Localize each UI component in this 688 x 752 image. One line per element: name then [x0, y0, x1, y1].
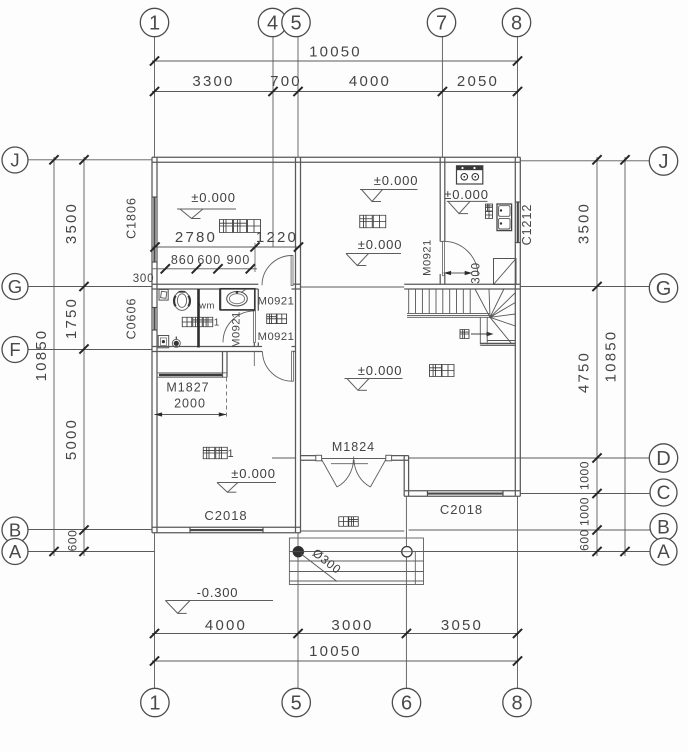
- row C line (right): [520, 493, 650, 495]
- row A line (right): [415, 551, 650, 553]
- svg-text:2780: 2780: [175, 229, 217, 246]
- row D sill extension into bedroom: [272, 457, 296, 459]
- svg-text:10850: 10850: [33, 329, 50, 382]
- porch column grid5 (filled): [291, 547, 306, 557]
- dim line 2000 with arrowheads: [155, 412, 227, 416]
- grid line 4 (top extension): [272, 36, 274, 247]
- svg-text:J: J: [10, 150, 19, 171]
- svg-text:900: 900: [226, 253, 250, 267]
- svg-text:4750: 4750: [576, 351, 593, 393]
- porch column grid6 (open): [400, 547, 415, 557]
- door M0921 kitchen (leaf+swing): [443, 241, 478, 275]
- svg-text:B: B: [9, 520, 21, 541]
- grid bubble F left: [2, 337, 28, 363]
- svg-text:C0606: C0606: [125, 298, 139, 340]
- porch north wall row D west segment: [301, 456, 322, 461]
- svg-text:4: 4: [267, 13, 278, 35]
- room label kitchen 厨房 (stacked): [486, 204, 493, 211]
- ticks top dimension rows: [150, 56, 522, 96]
- grid line 8 (top extension): [517, 36, 519, 158]
- room label living 客厅: [430, 365, 442, 377]
- dim line 2780/1220: [152, 246, 301, 248]
- svg-text:M0921: M0921: [422, 239, 434, 276]
- svg-text:M1827: M1827: [166, 381, 209, 395]
- kitchen sink double basin: [497, 204, 512, 231]
- svg-text:±0.000: ±0.000: [231, 466, 275, 481]
- level mark +0.000 kitchen: [444, 187, 488, 214]
- svg-text:6: 6: [401, 693, 412, 715]
- ticks bottom dimension rows: [150, 629, 522, 666]
- porch north wall row D east segment: [386, 456, 409, 461]
- grid bubble 6 bottom: [392, 688, 420, 716]
- grid line 5 (bottom extension): [297, 533, 299, 690]
- level mark +0.000 dining lower: [346, 237, 402, 266]
- double door M1824 porch entrance: [316, 455, 392, 487]
- interior wall row G (stair north / kitchen south): [404, 284, 520, 289]
- svg-text:10050: 10050: [309, 44, 362, 61]
- toilet: [174, 291, 190, 310]
- room label dining 餐厅: [360, 215, 373, 228]
- right dimension line overall 10850: [624, 157, 626, 556]
- level mark +0.000 living: [345, 363, 403, 390]
- top dimension line segments 3300/700/4000/2050: [152, 91, 519, 93]
- svg-text:M0921: M0921: [231, 311, 243, 348]
- bathroom partition wall (dark) wm/counter: [219, 289, 222, 310]
- corridor label: [267, 314, 277, 324]
- right dimension line segments: [596, 157, 598, 556]
- grid bubble B left: [2, 517, 28, 543]
- svg-text:7: 7: [436, 13, 447, 35]
- svg-text:2050: 2050: [457, 73, 499, 90]
- column diameter leader Ø300: [301, 546, 345, 582]
- ticks chain 860/600/900: [161, 264, 255, 273]
- svg-text:5: 5: [291, 693, 302, 715]
- svg-text:3500: 3500: [63, 202, 80, 244]
- dim chain line 860/600/900: [152, 268, 257, 270]
- stair up arrow with 上: [460, 330, 494, 339]
- corridor west wall lower segment: [254, 342, 258, 346]
- window C1212 on east wall (kitchen): [515, 202, 520, 243]
- wall stub below row F at corridor: [253, 352, 255, 367]
- svg-text:F: F: [9, 339, 20, 360]
- grid bubble 8 top: [502, 8, 530, 36]
- grid bubble A right: [650, 538, 677, 565]
- interior wall row G jamb east of storage door: [292, 284, 301, 289]
- grid bubble J left: [2, 147, 28, 173]
- row D line (right): [409, 457, 651, 459]
- svg-text:3500: 3500: [576, 202, 593, 244]
- row J line (right): [520, 160, 650, 162]
- svg-text:3050: 3050: [441, 617, 483, 634]
- svg-text:C2018: C2018: [440, 502, 483, 517]
- level mark +0.000 bedroom: [217, 466, 276, 492]
- staircase winder fan: [475, 289, 515, 344]
- grid line 7 (top extension): [441, 36, 443, 158]
- room label porch 门廊: [339, 517, 349, 527]
- svg-text:300: 300: [133, 273, 155, 285]
- row B line (right): [409, 529, 651, 531]
- svg-text:5: 5: [290, 13, 301, 35]
- bottom dimension line segments 4000/3000/3050: [152, 633, 519, 635]
- grid line 8 (bottom extension): [517, 496, 519, 689]
- dim line 300 kitchen door: [444, 271, 473, 275]
- exterior wall row C (living south): [404, 491, 520, 497]
- svg-text:C1806: C1806: [125, 197, 139, 239]
- window C0606 on west wall (bathroom): [152, 308, 157, 331]
- staircase upper flight treads: [409, 289, 471, 313]
- row J line (left): [28, 159, 152, 161]
- grid line 1 (top extension): [154, 36, 156, 158]
- window C2018 on bedroom south wall: [190, 527, 263, 533]
- svg-text:A: A: [9, 541, 22, 562]
- svg-text:G: G: [656, 278, 672, 300]
- svg-text:1750: 1750: [63, 297, 80, 339]
- svg-text:8: 8: [511, 693, 522, 715]
- svg-text:600: 600: [197, 253, 221, 267]
- left dimension line segments: [83, 157, 85, 556]
- svg-text:1: 1: [227, 448, 233, 460]
- cooktop stove: [457, 166, 483, 184]
- grid bubble 1 top: [140, 8, 168, 36]
- interior wall grid 7 (kitchen west): [440, 157, 445, 241]
- grid bubble 8 bottom: [503, 688, 531, 716]
- svg-text:2000: 2000: [174, 397, 206, 411]
- window C1806 on west wall (storage): [152, 197, 157, 262]
- interior wall row G (bathroom north): [152, 284, 258, 289]
- ticks left dimension lines: [49, 155, 88, 556]
- grid bubble B right: [650, 514, 677, 541]
- grid bubble 5 top: [282, 8, 310, 36]
- porch south edge line: [301, 530, 405, 532]
- level mark -0.300 outdoor: [165, 585, 273, 613]
- grid line 6 (bottom extension): [405, 496, 407, 689]
- bathroom partition wall (dark) toilet/wm: [197, 289, 200, 348]
- row F line (left): [28, 349, 152, 351]
- room label bathroom 卫生间1: [182, 317, 192, 327]
- riser at 2780/1220 boundary: [254, 243, 256, 272]
- shower drain circle: [172, 337, 180, 348]
- svg-text:wm: wm: [198, 301, 215, 312]
- ticks right dimension lines: [592, 155, 629, 556]
- svg-text:4000: 4000: [205, 617, 247, 634]
- svg-text:3300: 3300: [192, 73, 234, 90]
- corridor west wall upper segment: [254, 289, 258, 311]
- svg-text:600: 600: [66, 530, 80, 552]
- flue duct with diagonal: [494, 259, 517, 285]
- svg-text:±0.000: ±0.000: [191, 190, 235, 205]
- grid bubble 4 top: [258, 8, 286, 36]
- svg-text:M0921: M0921: [258, 331, 295, 343]
- svg-text:C2018: C2018: [204, 508, 247, 523]
- grid line 1 (bottom extension): [154, 533, 156, 690]
- bottom dimension line overall 10050: [152, 660, 519, 662]
- svg-text:1000: 1000: [578, 497, 592, 526]
- svg-text:1: 1: [214, 318, 220, 329]
- interior wall grid 5 (storage/dining, corridor/living, bedroom/porch): [296, 157, 301, 533]
- grid bubble D right: [649, 444, 677, 472]
- row B line (left): [28, 529, 152, 531]
- room label storage 储藏室: [220, 220, 233, 233]
- left dimension line overall 10850: [53, 157, 55, 556]
- row A line (left): [28, 551, 155, 553]
- svg-text:5000: 5000: [63, 418, 80, 460]
- grid bubble A left: [2, 539, 28, 565]
- svg-text:3000: 3000: [331, 617, 373, 634]
- svg-text:1: 1: [149, 13, 160, 35]
- svg-text:8: 8: [511, 13, 522, 35]
- grid bubble G right: [649, 274, 677, 302]
- svg-text:700: 700: [270, 73, 302, 90]
- svg-text:300: 300: [471, 262, 483, 284]
- interior wall row F jamb east of bedroom door: [292, 347, 296, 352]
- staircase lower flight: [480, 317, 515, 345]
- svg-text:M1824: M1824: [332, 440, 375, 454]
- svg-text:860: 860: [171, 253, 195, 267]
- svg-text:C: C: [657, 483, 671, 504]
- sliding door M1827 on bedroom closet: [157, 373, 227, 377]
- staircase stringer triple line: [407, 313, 490, 317]
- svg-text:M0921: M0921: [258, 296, 295, 308]
- shower corner tray: [159, 290, 168, 301]
- interior wall grid 7 stub below kitchen door: [440, 274, 445, 284]
- closet east jamb: [223, 352, 228, 378]
- room label bedroom 卧室1: [203, 447, 215, 459]
- door M0921 bathroom (leaf+swing): [223, 311, 255, 343]
- svg-text:J: J: [659, 151, 669, 173]
- exterior wall grid 8 (east): [515, 157, 520, 496]
- top dimension line 10050: [152, 60, 519, 62]
- svg-text:G: G: [8, 276, 22, 297]
- row G line (left): [28, 286, 152, 288]
- floor drain square: [158, 336, 169, 348]
- svg-text:-0.300: -0.300: [197, 585, 239, 600]
- svg-text:A: A: [657, 542, 670, 563]
- svg-text:B: B: [657, 518, 670, 539]
- room divider line dining/living: [301, 286, 405, 288]
- level mark +0.000 storage: [177, 190, 236, 219]
- svg-text:600: 600: [578, 529, 592, 551]
- svg-text:D: D: [656, 448, 670, 470]
- exterior wall grid 1 (west): [152, 157, 157, 533]
- grid bubble 7 top: [427, 8, 455, 36]
- svg-text:C1212: C1212: [520, 204, 534, 246]
- grid line 5 (top extension): [297, 36, 299, 158]
- svg-text:10850: 10850: [603, 330, 620, 383]
- svg-text:1: 1: [149, 693, 160, 715]
- grid bubble G left: [2, 274, 28, 300]
- row G line (right): [520, 286, 650, 288]
- svg-text:±0.000: ±0.000: [358, 237, 402, 252]
- exterior wall row B (bedroom south): [152, 527, 301, 533]
- grid bubble C right: [650, 479, 677, 506]
- svg-text:1000: 1000: [578, 461, 592, 490]
- svg-text:4000: 4000: [349, 73, 391, 90]
- svg-text:±0.000: ±0.000: [358, 363, 402, 378]
- svg-text:10050: 10050: [309, 643, 362, 660]
- svg-text:±0.000: ±0.000: [374, 173, 418, 188]
- grid bubble 5 bottom: [282, 688, 310, 716]
- door M0921 storage (leaf+swing): [262, 256, 293, 286]
- interior wall row F (bathroom south): [152, 347, 262, 352]
- exterior wall row J (north): [152, 157, 520, 162]
- washbasin counter: [220, 289, 254, 310]
- grid bubble 1 bottom: [141, 688, 169, 716]
- porch entrance steps: [289, 538, 423, 585]
- svg-text:±0.000: ±0.000: [444, 187, 488, 202]
- grid bubble J right: [649, 147, 677, 175]
- ticks 2780/1220: [150, 242, 303, 251]
- level mark +0.000 dining upper: [360, 173, 418, 202]
- door M0921 bedroom (leaf+swing): [263, 351, 294, 381]
- porch east wall grid 6: [404, 456, 408, 497]
- dashed extension line for 2000 dim: [225, 378, 227, 420]
- window C2018 on living south wall: [427, 491, 503, 497]
- svg-text:1220: 1220: [256, 229, 298, 246]
